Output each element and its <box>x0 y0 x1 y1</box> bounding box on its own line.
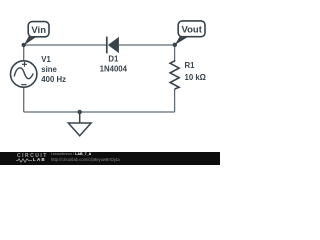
node Vout flag pointer <box>175 36 189 45</box>
wire: top-right segment from diode D1 to node Vout <box>119 44 175 46</box>
CircuitLab logo resistor squiggle <box>16 158 32 163</box>
CircuitLab logo wordmark <box>17 154 48 159</box>
node Vin junction dot <box>22 43 26 47</box>
svg-text:Vin: Vin <box>31 25 46 36</box>
label D1 designator and value 1N4004 <box>100 55 128 74</box>
schematic canvas <box>0 0 220 165</box>
node Vout junction dot <box>173 43 177 47</box>
node Vin flag box <box>28 22 49 37</box>
wire: right vertical from resistor R1 bottom to bottom rail <box>174 89 176 112</box>
wire: left vertical from source V1 bottom terminal to bottom rail <box>23 87 25 112</box>
svg-text:400 Hz: 400 Hz <box>41 75 66 84</box>
svg-text:D1: D1 <box>108 55 119 64</box>
svg-text:R1: R1 <box>185 61 196 70</box>
node ground junction dot <box>78 110 82 114</box>
wire: right vertical from node Vout down to resistor R1 top <box>174 45 176 60</box>
resistor R1 <box>170 60 179 89</box>
wire: bottom ground rail <box>24 111 175 113</box>
footer credit line 2 <box>51 158 120 162</box>
svg-text:10 kΩ: 10 kΩ <box>185 73 206 82</box>
wire: left vertical from node Vin down to source V1 top terminal <box>23 45 25 61</box>
voltage source V1 (sine) <box>11 61 37 87</box>
svg-text:V1: V1 <box>41 55 51 64</box>
footer attribution bar <box>0 152 220 165</box>
diode D1 <box>107 37 119 54</box>
svg-text:1N4004: 1N4004 <box>100 65 128 74</box>
svg-text:Vout: Vout <box>181 25 202 36</box>
footer credit line 1 <box>51 153 91 157</box>
node Vin flag pointer <box>24 36 37 45</box>
label V1 designator and values: sine, 400 Hz <box>41 55 66 84</box>
label R1 designator and value 10 kOhm <box>185 61 206 82</box>
wire: top-left segment from node Vin to diode D1 anode-side <box>24 44 107 46</box>
node Vout flag box <box>178 21 205 37</box>
ground <box>68 112 91 136</box>
svg-text:sine: sine <box>41 65 57 74</box>
